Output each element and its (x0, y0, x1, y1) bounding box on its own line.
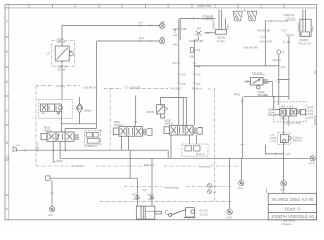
svg-text:+(3)(,4): +(3)(,4) (36, 143, 40, 152)
svg-text:(2(A(: (2(A( (265, 81, 271, 84)
svg-text:A(5): A(5) (132, 192, 137, 196)
port A coupling (136, 196, 140, 200)
svg-text:(DRV)+: (DRV)+ (165, 122, 175, 126)
svg-text:90m: 90m (226, 24, 230, 29)
relief valve DBV enclosure (dash-dot box) (52, 40, 75, 66)
svg-text:A06 40/.9B: A06 40/.9B (244, 45, 258, 49)
valve V1 directional body (40, 104, 62, 115)
wires V3 down (122, 136, 129, 150)
svg-text:JOSEPH VOEGELE AG: JOSEPH VOEGELE AG (271, 214, 316, 219)
wire second drop from MSB (288, 116, 290, 126)
MSB valve enclosure dashed (274, 102, 307, 122)
manifold dash-dot left edge (35, 86, 37, 166)
svg-text:46.9952.2552 A4 00: 46.9952.2552 A4 00 (272, 197, 315, 202)
svg-text:+8.4: +8.4 (309, 162, 315, 166)
minimess box (46, 176, 51, 180)
filter F1 left stub (205, 31, 215, 33)
svg-text:A46+61.9B: A46+61.9B (189, 39, 203, 43)
wire top feed to filter1 (180, 19, 215, 41)
svg-text:COMP(A)(: COMP(A)( (85, 144, 97, 148)
wire +94 coupling drop (240, 158, 242, 180)
wire H y128.4 (65, 128, 97, 132)
tick on L1 (24, 149, 26, 152)
svg-text:+01: +01 (181, 73, 186, 77)
wire x229.4 drain (228, 158, 230, 209)
wire T line y41 (97, 40, 160, 42)
trunk wire T x194.3 (193, 40, 195, 125)
wires V4 down (170, 135, 172, 158)
motor M1 body (281, 135, 292, 143)
svg-text:95A020: 95A020 (296, 22, 300, 32)
wire manifold H y123.8 (62, 123, 97, 125)
gauge circle top of x279 (277, 50, 281, 54)
valve V3 T stub (134, 122, 138, 127)
svg-text:+02: +02 (196, 73, 201, 77)
tick between trapezoids (244, 10, 246, 12)
svg-text:5: 5 (28, 5, 30, 9)
wire coupling +88 drop (281, 181, 287, 194)
svg-text:T.KY: T.KY (281, 29, 287, 33)
wire corner to x288.9 (279, 36, 289, 100)
junction tick +VD (283, 158, 285, 160)
TK valve body (246, 78, 268, 89)
frame tick marks top (53, 4, 285, 8)
svg-text:+20(3: +20(3 (306, 109, 313, 113)
wire H y96.7 (244, 96, 289, 98)
junction dots L1 (52, 150, 54, 152)
svg-text:+P.2: +P.2 (48, 213, 54, 217)
svg-text:E: E (6, 50, 8, 54)
svg-text:MwA 2(: MwA 2( (196, 152, 205, 156)
relief valve DBV body (55, 46, 73, 61)
svg-text:Blatt 0: Blatt 0 (285, 206, 301, 211)
svg-text:A0+40/.9B: A0+40/.9B (257, 29, 270, 33)
wire main return y158.3 (60, 157, 310, 159)
svg-text:- Vogele -: - Vogele - (280, 222, 293, 226)
wire below V2 x65.2 (64, 141, 66, 150)
svg-text:24): 24) (41, 111, 45, 115)
svg-text:+26 40/.80: +26 40/.80 (259, 40, 273, 44)
svg-text:A45: A45 (173, 42, 178, 46)
wire from tanks to right y21 (264, 20, 288, 22)
svg-text:+9.4: +9.4 (237, 186, 243, 190)
svg-text:3(2)4+4.: 3(2)4+4. (192, 87, 203, 91)
tick on x52 (50, 192, 53, 194)
border frame inner left line (8, 5, 10, 220)
wire x279 down (278, 54, 280, 105)
manifold dash-dot divider x110 (109, 88, 111, 150)
svg-text:F# CN T.K.: F# CN T.K. (299, 41, 313, 45)
wire below V2 x60.1 to return (59, 141, 61, 158)
svg-text:+20(3: +20(3 (306, 112, 313, 116)
svg-text:Anschlusse: Anschlusse (164, 185, 179, 189)
svg-text:T.K 1/2a: T.K 1/2a (252, 71, 263, 75)
dash-dot zone line y186.6 (124, 186, 231, 188)
trunk wire P x178.8 (178, 19, 180, 126)
svg-text:+V5: +V5 (285, 152, 290, 156)
hose break ticks on T line (140, 39, 150, 42)
wire x168.2 drop (167, 150, 169, 158)
trunk tick labels x178.8 (177, 63, 181, 83)
ticks on PP1 column (241, 101, 244, 145)
svg-text:L.A 1,54 .23(4: L.A 1,54 .23(4 (284, 121, 301, 125)
svg-text:L5: L5 (47, 52, 51, 56)
rod end mark (165, 210, 168, 214)
filter F2 box (300, 19, 311, 36)
frame tick marks left (4, 37, 9, 195)
svg-text:92A020: 92A020 (212, 19, 216, 29)
hand pump HP1 (169, 208, 196, 219)
wire L1 y150.4 (17, 149, 169, 151)
svg-text:0.9952.2552: 0.9952.2552 (197, 4, 212, 8)
svg-text:2: 2 (214, 5, 216, 9)
svg-text:P80(A): P80(A) (293, 139, 302, 143)
svg-text:74+(2)4(.: 74+(2)4(. (170, 87, 182, 91)
svg-text:A(TMA): A(TMA) (56, 84, 66, 88)
wire x273 down to MSB (273, 97, 275, 110)
wire V3 up to dash edge (135, 96, 137, 123)
wire stub above title block (266, 189, 268, 194)
svg-text:2.3: 2.3 (276, 80, 280, 84)
filter F2 breather lines (303, 10, 306, 20)
svg-text:+02: +02 (181, 82, 186, 86)
svg-text:2). +30(230(.: 2). +30(230(. (125, 85, 141, 89)
dash-dot zone line y201.3 (100, 200, 232, 202)
wire tank drop x265.3 (264, 21, 266, 66)
svg-text:30 bar: 30 bar (58, 68, 66, 72)
tick on y21 wire (270, 19, 272, 22)
valve V4 directional body (164, 125, 202, 135)
filter F1 box (215, 30, 226, 35)
svg-text:+26A: +26A (204, 31, 211, 35)
wire P line top y25.4 (62, 24, 160, 26)
svg-text:1: 1 (260, 5, 262, 9)
svg-text:+26.20(8(2+: +26.20(8(2+ (70, 164, 85, 168)
svg-text:948: 948 (173, 28, 177, 33)
svg-text:+.8.8: +.8.8 (225, 215, 232, 219)
motor M1 enclosure dashed (278, 132, 290, 144)
junction tick y79.5 (277, 79, 281, 81)
wire TK valve drain to return (268, 81, 273, 96)
svg-text:+Mp: +Mp (243, 79, 249, 83)
shutoff valve X symbol (194, 31, 201, 40)
arrow to +74.6 (285, 34, 289, 37)
port B coupling (150, 196, 154, 200)
border frame inner top line (5, 7, 317, 9)
svg-text:+74.6: +74.6 (287, 33, 295, 37)
wire motor drain loop (265, 145, 283, 154)
coupling +P2 (49, 207, 54, 212)
wire V1 to V2 x61.5 (61, 111, 63, 132)
svg-text:(B): (B) (147, 192, 151, 196)
svg-text:F: F (6, 20, 8, 24)
tank trapezoid 2 hatched (247, 11, 256, 21)
wire x130.1 drop (129, 150, 131, 178)
tick on drain loop (275, 152, 277, 155)
orifice box (190, 47, 193, 52)
svg-text:Planung(: Planung( (198, 164, 209, 168)
coupling bottom drain (227, 209, 233, 215)
svg-text:B: B (6, 141, 8, 145)
wire x52 drop to coupling (51, 180, 53, 206)
MSB valve body (275, 108, 306, 116)
wire x283.6 valve to motor to bottom (283, 116, 285, 180)
tank trapezoid 1 hatched (233, 11, 242, 21)
svg-text:+8.8: +8.8 (279, 188, 285, 192)
dash-dot zone line y166 (36, 165, 241, 167)
pilot valve PV1 body (157, 98, 187, 118)
wire cylinder port B x152 (151, 158, 153, 206)
coupling +B1 T line (159, 37, 164, 43)
cylinder CYL1 (136, 206, 161, 219)
two small couplings center (208, 184, 212, 194)
wire T column x96.6 (96, 41, 98, 128)
svg-text:+06: +06 (196, 82, 201, 86)
wire PP1 column x242.3 (241, 97, 243, 159)
svg-text:100bar: 100bar (83, 109, 91, 113)
COMP small boxes (86, 132, 99, 143)
valve V1 enclosure dashed (39, 100, 72, 119)
svg-text:A06: A06 (189, 55, 194, 59)
svg-text:+2: +2 (281, 50, 285, 54)
manifold dash-dot top edge (36, 86, 215, 89)
svg-text:F.,/.81: F.,/.81 (283, 40, 291, 44)
svg-text:+30(.40) 4)(: +30(.40) 4)( (83, 85, 98, 89)
wire relief valve down to manifold (61, 61, 63, 100)
junction tick y65.9 (277, 65, 281, 67)
svg-text:+4.0: +4.0 (260, 35, 266, 39)
svg-text:+B.(: +B.( (160, 35, 165, 39)
svg-text:1.4(2( 4.14,5: 1.4(2( 4.14,5 (278, 105, 294, 109)
MSBA boxes (185, 146, 200, 151)
svg-text:+6.1: +6.1 (138, 36, 144, 40)
svg-text:MDA(2: MDA(2 (268, 113, 277, 117)
svg-text:170.39: 170.39 (286, 16, 295, 20)
check valve CV1 (76, 97, 82, 124)
svg-text:25/: 25/ (314, 70, 317, 74)
svg-text:A: A (6, 155, 9, 160)
svg-text:+2(30(A: +2(30(A (54, 159, 64, 163)
valve V2 directional body (41, 132, 79, 141)
wire cylinder port A x137.6 (137, 178, 139, 206)
MSBA enclosure dashed (182, 144, 208, 156)
suction end symbol (13, 147, 17, 152)
svg-text:3: 3 (121, 5, 123, 9)
svg-text:3: 3 (167, 5, 169, 9)
svg-text:TK(: TK( (172, 61, 177, 65)
svg-text:4: 4 (74, 5, 76, 9)
svg-text:+4.2: +4.2 (195, 48, 201, 52)
wire test line y178.2 (50, 177, 138, 179)
wire feed B to V4 (185, 98, 187, 127)
COMP enclosure dashed (85, 131, 101, 145)
svg-text:+41: +41 (196, 65, 201, 69)
svg-text:247: 247 (197, 27, 202, 31)
wire below V2 x53.2 (52, 141, 54, 163)
svg-text:+20(3: +20(3 (306, 116, 313, 120)
wire feed A to V4 (182, 98, 184, 127)
tick on top feed (192, 17, 194, 20)
hose break ticks on top line (140, 24, 150, 27)
svg-text:+02: +02 (133, 197, 138, 201)
svg-text:Planung: Planung (144, 163, 155, 167)
svg-text:+49,50: +49,50 (205, 16, 214, 20)
valve V3 directional body (113, 127, 152, 137)
svg-text:+06: +06 (147, 197, 152, 201)
manifold dash-dot right edge x214.6 (214, 88, 216, 201)
coupling +84 right end (310, 156, 315, 161)
svg-text:+26: +26 (280, 65, 285, 69)
svg-text:10 322: 10 322 (199, 212, 208, 216)
filter F1 breather lines (219, 10, 226, 30)
trunk tick labels x194.3 (193, 63, 197, 83)
svg-text:25/25.02: 25/25.02 (314, 115, 317, 125)
svg-text:+20(3: +20(3 (306, 105, 313, 109)
svg-text:90m: 90m (311, 26, 315, 31)
svg-text:28(05: 28(05 (147, 110, 155, 114)
svg-text:4(2: 4(2 (143, 188, 147, 192)
junction dot y96.7 (273, 96, 275, 98)
coupling +94 (239, 180, 244, 185)
svg-text:+41: +41 (138, 21, 143, 25)
svg-text:+(04.9(: +(04.9( (272, 58, 281, 62)
svg-text:+5(1: +5(1 (160, 20, 166, 24)
svg-text:U-ring: U-ring (217, 39, 225, 43)
wire vertical from top line into relief valve (61, 25, 63, 46)
wire T to right side y65.9 (194, 65, 278, 67)
svg-text:+.2(0: +.2(0 (270, 139, 277, 143)
svg-text:100.4A: 100.4A (57, 40, 66, 44)
svg-text:PP(1: PP(1 (234, 93, 241, 97)
coupling +51 P line (159, 22, 164, 28)
title block table (268, 193, 316, 220)
